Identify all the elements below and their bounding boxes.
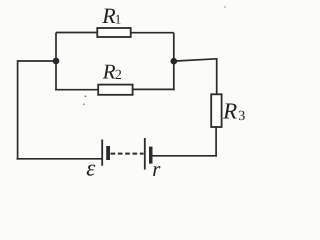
wire R2 right lead xyxy=(133,88,175,90)
battery cell 2 short plate xyxy=(149,147,153,164)
speck 3 xyxy=(224,6,226,8)
battery cell 1 long plate xyxy=(101,140,103,166)
battery cell 1 short plate xyxy=(106,146,110,160)
wire bottom right xyxy=(152,155,217,157)
svg-text:2: 2 xyxy=(115,68,122,83)
speck 1 xyxy=(85,95,87,97)
wire top right xyxy=(174,59,217,61)
label R3 xyxy=(222,98,245,124)
wire R1 left lead xyxy=(56,32,97,34)
speck 2 xyxy=(83,103,85,105)
wire dashed link between cells xyxy=(111,153,144,155)
wire bottom left xyxy=(17,158,102,160)
battery cell 2 long plate xyxy=(144,138,146,170)
resistor R2 xyxy=(98,85,132,95)
wire right rail upper xyxy=(216,58,218,94)
svg-text:3: 3 xyxy=(238,109,245,124)
wire left branch vertical xyxy=(55,33,57,91)
svg-text:r: r xyxy=(152,157,161,181)
svg-text:ε: ε xyxy=(86,156,96,181)
wire left rail horizontal xyxy=(18,60,56,62)
wire right rail lower xyxy=(215,127,217,157)
label R2 xyxy=(102,60,122,84)
node right junction xyxy=(171,58,178,65)
svg-text:R: R xyxy=(102,60,116,84)
wire right branch vertical xyxy=(173,33,175,91)
wire R2 left lead xyxy=(55,89,98,91)
resistor R1 xyxy=(97,28,130,37)
wire R1 right lead xyxy=(131,32,174,34)
node left junction xyxy=(53,58,60,65)
wire left rail vertical xyxy=(17,60,19,159)
svg-text:R: R xyxy=(222,98,237,123)
resistor R3 xyxy=(211,94,221,127)
svg-text:1: 1 xyxy=(115,12,122,27)
label R1 xyxy=(101,3,121,28)
